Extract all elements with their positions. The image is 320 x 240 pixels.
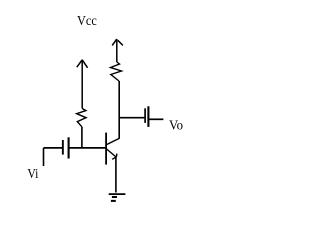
ground [109,194,126,201]
svg-text:Vcc: Vcc [77,14,97,29]
svg-text:Vi: Vi [27,167,38,182]
wire R2 bottom lead to collector [118,81,120,139]
wire collector to capacitor C2 [119,117,144,119]
wire capacitor C1 to base [69,147,106,149]
wire input from Vi terminal to capacitor C1 [44,147,63,149]
transistor Q1 collector stroke [106,138,119,144]
arrow to Vcc (left supply arrow) [77,60,88,109]
node Vi terminal stub [43,148,45,166]
svg-text:Vo: Vo [169,119,183,134]
transistor Q1 base bar [105,133,107,165]
transistor Q1 emitter stroke with arrow [106,149,117,160]
capacitor C1 (input coupling) [63,137,69,158]
resistor R2 (right, collector load) [111,62,122,81]
arrow to Vcc (right supply arrow) [112,39,123,62]
wire capacitor C2 to Vo [149,118,163,120]
wire R1 bottom lead [81,127,83,148]
capacitor C2 (output coupling) [145,106,148,127]
wire emitter to ground [115,157,117,193]
resistor R1 (left, base bias) [77,109,87,127]
